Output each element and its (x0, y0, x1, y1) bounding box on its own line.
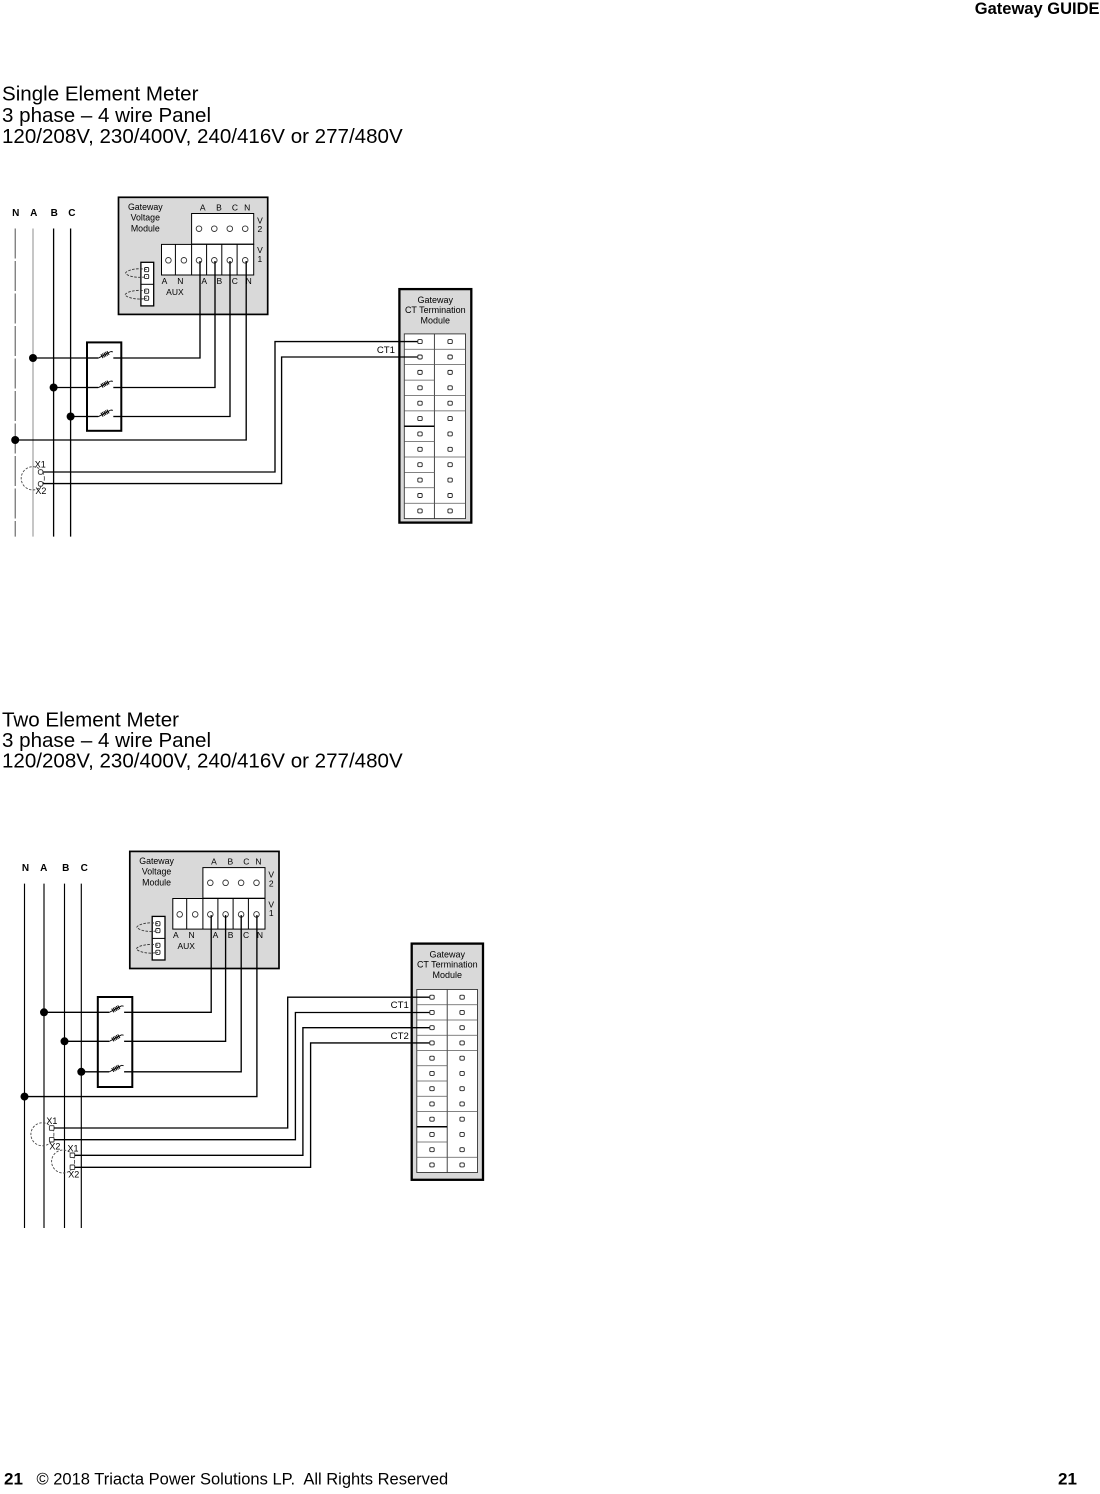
svg-text:B: B (227, 856, 233, 866)
D2 AUX loop wire top (137, 923, 158, 932)
D1 termination module title (405, 295, 466, 326)
heading: Two Element Meter (2, 709, 403, 773)
svg-text:B: B (51, 208, 58, 219)
svg-text:A: A (162, 276, 168, 286)
svg-text:Voltage: Voltage (142, 867, 171, 877)
svg-text:Module: Module (131, 223, 160, 233)
D2 AUX connector plug (152, 916, 165, 960)
D1 wire: CT1 X1 to termination row 1 (43, 342, 417, 472)
D1 V2 terminal block (192, 214, 254, 245)
svg-text:Gateway: Gateway (430, 949, 466, 959)
D1 AUX connector plug (141, 262, 154, 306)
svg-text:Single Element Meter: Single Element Meter (2, 83, 199, 106)
D1 phase bus A (vertical) (32, 229, 34, 537)
svg-text:X1: X1 (35, 459, 46, 469)
svg-text:Module: Module (433, 970, 463, 980)
svg-text:N: N (257, 930, 263, 940)
D2 wire: CT2 X1 to termination row 3 (75, 1028, 430, 1156)
svg-text:A: A (40, 863, 47, 874)
svg-text:X2: X2 (68, 1170, 79, 1180)
svg-text:N: N (22, 863, 29, 874)
D2 current transformer CT2 (phase B) (52, 1150, 75, 1173)
D2 phase bus C (vertical) (80, 884, 82, 1228)
D2 current transformer CT1 (phase A) (31, 1123, 54, 1146)
D2 V1 terminal labels A N / A B C N (173, 930, 263, 940)
D1 wire: breaker A output to V1-A (121, 261, 200, 358)
D2 wire: neutral to V1-N (25, 915, 257, 1097)
D2 label V1 (268, 899, 274, 918)
D2 neutral bus N (vertical) (24, 884, 26, 1228)
svg-text:A: A (173, 930, 179, 940)
svg-text:Gateway GUIDE: Gateway GUIDE (975, 0, 1100, 18)
D2 wire: breaker B output to V1-B (132, 915, 225, 1041)
D2 breaker CB-A (98, 1005, 133, 1012)
svg-text:CT1: CT1 (391, 1000, 409, 1011)
D1 AUX loop wire bottom (125, 290, 147, 299)
svg-text:3 phase – 4 wire Panel: 3 phase – 4 wire Panel (2, 104, 211, 127)
D2 phase bus A (vertical) (43, 884, 45, 1228)
svg-text:A: A (200, 202, 206, 212)
D2 V2 terminal labels A B C N (211, 856, 261, 866)
D1 junction dot phase B (50, 384, 58, 392)
D1 wire: CT1 X2 to termination row 2 (43, 357, 417, 484)
D1 Gateway CT Termination Module enclosure (399, 289, 471, 522)
svg-text:N: N (255, 856, 261, 866)
D2 junction dot neutral (21, 1093, 29, 1101)
D2 junction dot phase A (40, 1008, 48, 1016)
svg-text:Module: Module (142, 878, 171, 888)
D2 wire: phase B tap to breaker (65, 1040, 98, 1042)
D1 wire: phase C tap to breaker (71, 416, 87, 418)
svg-text:X2: X2 (35, 486, 46, 496)
D1 neutral bus N (vertical) (14, 229, 16, 537)
D1 phase bus B (vertical) (53, 229, 55, 537)
svg-text:N: N (12, 208, 19, 219)
D1 junction dot phase C (67, 413, 75, 421)
D1 termination terminal grid (404, 334, 465, 519)
svg-text:C: C (232, 276, 238, 286)
svg-text:CT Termination: CT Termination (405, 305, 466, 315)
svg-text:AUX: AUX (166, 287, 184, 297)
D1 voltage module title (128, 202, 163, 234)
D1 V1 terminal labels A N / A B C N (162, 276, 252, 286)
D2 V1 terminal block (173, 899, 265, 930)
svg-text:2: 2 (269, 878, 274, 888)
svg-text:2: 2 (258, 224, 263, 234)
svg-text:C: C (68, 208, 75, 219)
D1 Gateway Voltage Module enclosure (119, 197, 268, 314)
D1 V1 terminal block (162, 244, 254, 275)
svg-text:B: B (62, 863, 69, 874)
D2 breaker CB-C (98, 1065, 133, 1072)
svg-text:CT2: CT2 (391, 1031, 409, 1042)
svg-text:B: B (216, 202, 222, 212)
D2 wire: CT1 X2 to termination row 2 (54, 1013, 429, 1140)
svg-text:C: C (243, 856, 249, 866)
svg-text:21: 21 (1058, 1470, 1077, 1489)
svg-text:1: 1 (258, 254, 263, 264)
svg-text:C: C (232, 202, 238, 212)
svg-text:X1: X1 (46, 1116, 57, 1126)
D2 junction dot phase B (61, 1037, 69, 1045)
D2 wire: breaker C output to V1-C (132, 915, 241, 1072)
D2 voltage module title (139, 856, 174, 888)
svg-text:B: B (216, 276, 222, 286)
D2 label V2 (268, 870, 274, 889)
D2 Gateway Voltage Module enclosure (130, 851, 279, 968)
D2 termination module title (417, 949, 478, 980)
D1 breaker panel box (87, 342, 121, 430)
svg-text:Gateway: Gateway (128, 202, 163, 212)
D1 phase bus C (vertical) (70, 229, 72, 537)
svg-text:A: A (30, 208, 37, 219)
svg-text:Module: Module (421, 316, 451, 326)
svg-text:C: C (81, 863, 88, 874)
D1 wire: phase B tap to breaker (54, 387, 87, 389)
svg-text:A: A (211, 856, 217, 866)
svg-text:21: 21 (4, 1470, 23, 1489)
svg-text:N: N (177, 276, 183, 286)
D1 breaker CB-C (87, 410, 121, 417)
D2 wire: phase A tap to breaker (44, 1011, 98, 1013)
svg-text:AUX: AUX (177, 941, 195, 951)
svg-text:Gateway: Gateway (418, 295, 454, 305)
heading: Single Element Meter (2, 83, 403, 149)
D2 termination terminal grid (417, 990, 478, 1173)
D2 wire: phase C tap to breaker (81, 1071, 98, 1073)
D1 junction dot neutral (11, 436, 19, 444)
svg-text:© 2018 Triacta Power Solutions: © 2018 Triacta Power Solutions LP. All R… (37, 1471, 449, 1489)
svg-text:X1: X1 (67, 1143, 78, 1153)
D2 wire: breaker A output to V1-A (132, 915, 211, 1012)
svg-text:N: N (244, 202, 250, 212)
svg-text:Gateway: Gateway (139, 856, 174, 866)
D2 wire: CT2 X2 to termination row 4 (75, 1043, 430, 1167)
D2 Gateway CT Termination Module enclosure (412, 944, 483, 1180)
svg-text:A: A (213, 930, 219, 940)
D1 wire: breaker C output to V1-C (121, 261, 230, 417)
D2 V2 terminal block (203, 868, 265, 899)
D1 current transformer CT1 (21, 467, 44, 490)
D1 label V2 (257, 215, 263, 234)
D1 wire: phase A tap to breaker (33, 357, 87, 359)
svg-text:1: 1 (269, 908, 274, 918)
svg-text:CT1: CT1 (377, 345, 395, 356)
D2 junction dot phase C (77, 1068, 85, 1076)
svg-text:120/208V, 230/400V, 240/416V o: 120/208V, 230/400V, 240/416V or 277/480V (2, 125, 403, 148)
D1 wire: neutral to V1-N (15, 261, 246, 440)
D1 breaker CB-B (87, 381, 121, 388)
D1 junction dot phase A (29, 354, 37, 362)
D2 breaker panel box (98, 997, 133, 1087)
svg-text:X2: X2 (49, 1141, 60, 1151)
svg-text:A: A (201, 276, 207, 286)
D1 label V1 (257, 245, 263, 264)
D1 breaker CB-A (87, 351, 121, 358)
D1 V2 terminal labels A B C N (200, 202, 250, 212)
D2 breaker CB-B (98, 1034, 133, 1041)
svg-text:C: C (243, 930, 249, 940)
D2 wire: CT1 X1 to termination row 1 (54, 997, 429, 1128)
svg-text:CT Termination: CT Termination (417, 960, 478, 970)
svg-text:Voltage: Voltage (131, 213, 160, 223)
svg-text:B: B (228, 930, 234, 940)
D1 wire: breaker B output to V1-B (121, 261, 215, 388)
svg-text:N: N (189, 930, 195, 940)
D2 phase bus B (vertical) (64, 884, 66, 1228)
D1 AUX loop wire top (126, 269, 147, 278)
svg-text:120/208V, 230/400V, 240/416V o: 120/208V, 230/400V, 240/416V or 277/480V (2, 750, 403, 773)
D2 AUX loop wire bottom (136, 944, 158, 953)
